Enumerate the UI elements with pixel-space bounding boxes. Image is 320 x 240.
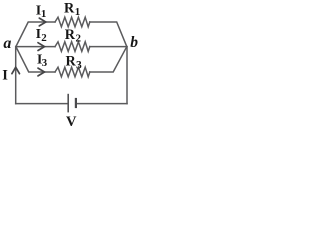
svg-text:b: b	[130, 34, 138, 51]
svg-text:I: I	[2, 67, 8, 83]
arrowhead current I2 on branch2	[38, 43, 45, 51]
svg-text:1: 1	[75, 6, 81, 18]
arrowhead current I on left wire pointing up	[12, 67, 20, 74]
arrowhead current I1 on branch1	[39, 18, 46, 26]
svg-text:R: R	[64, 0, 75, 16]
label current I2	[36, 27, 48, 44]
svg-text:a: a	[3, 35, 11, 52]
battery V short plate	[75, 98, 77, 108]
resistor R1	[55, 17, 90, 27]
wire branch2 right to node b	[90, 46, 127, 48]
wire branch1 right to node b	[90, 22, 127, 47]
wire branch1 top: node a up to R1	[16, 22, 55, 47]
label resistor R2	[65, 27, 82, 45]
svg-text:3: 3	[76, 60, 82, 72]
svg-text:1: 1	[41, 8, 47, 20]
svg-text:2: 2	[41, 32, 47, 44]
svg-text:2: 2	[76, 32, 82, 44]
wire left vertical from node a down	[15, 47, 17, 104]
arrowhead current I3 on branch3	[38, 68, 45, 76]
wire bottom left to battery	[16, 103, 68, 105]
resistor R2	[55, 42, 90, 52]
label resistor R3	[66, 53, 83, 71]
label current I3	[37, 52, 48, 69]
label current I1	[36, 3, 47, 20]
wire bottom battery to right	[77, 103, 127, 105]
svg-text:R: R	[65, 27, 76, 43]
wire branch3 right to node b	[90, 47, 127, 72]
wire branch3 bottom: node a down to R3	[16, 47, 55, 72]
wire right vertical from node b down	[126, 47, 128, 104]
battery V long plate	[67, 94, 69, 113]
label resistor R1	[64, 0, 80, 18]
resistor R3	[55, 67, 90, 77]
wire branch2 middle: node a to R2	[16, 46, 55, 48]
svg-text:3: 3	[42, 57, 48, 69]
svg-text:R: R	[66, 53, 77, 69]
svg-text:V: V	[66, 114, 77, 129]
